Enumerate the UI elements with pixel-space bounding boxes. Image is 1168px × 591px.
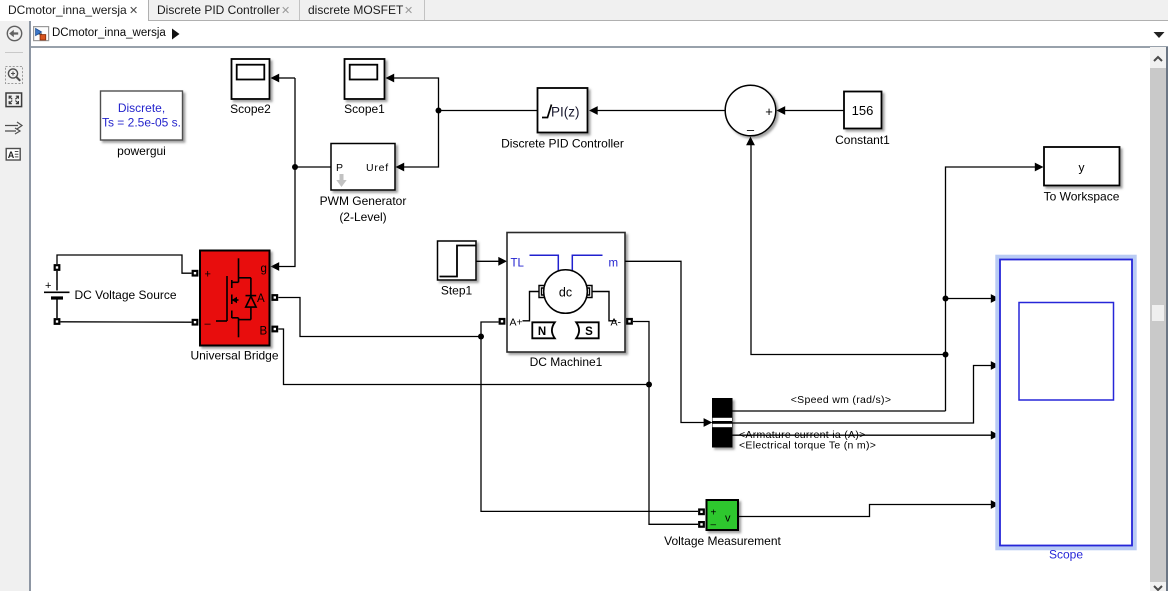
wire demux out3 (732, 434, 991, 436)
svg-text:S: S (585, 326, 593, 338)
rotor circle (544, 270, 588, 314)
svg-text:–: – (747, 122, 755, 137)
svg-text:+: + (711, 508, 717, 519)
svg-text:Uref: Uref (366, 162, 389, 174)
DC Voltage Source battery symbol (44, 271, 70, 318)
voltmeter - port (699, 522, 704, 527)
wire bridge B to junction (278, 329, 649, 385)
MOSFET Q1 icon (216, 258, 256, 337)
bridge + port (193, 271, 198, 276)
junction node speed to feedback (943, 352, 949, 358)
svg-text:–: – (711, 520, 717, 531)
svg-text:Ts = 2.5e-05 s.: Ts = 2.5e-05 s. (102, 116, 181, 130)
svg-text:A+: A+ (510, 317, 523, 329)
DC Voltage Source - port (55, 319, 60, 324)
svg-text:Discrete PID Controller: Discrete PID Controller (501, 137, 624, 151)
svg-text:156: 156 (852, 103, 874, 118)
sum block (725, 85, 776, 137)
svg-text:g: g (261, 263, 267, 275)
svg-text:y: y (1079, 161, 1085, 175)
Step1 block (438, 241, 477, 280)
svg-text:P: P (336, 162, 343, 174)
toolbar icons (0, 21, 28, 591)
Scope2 input arrowhead (271, 74, 280, 83)
wire PID output to junction (439, 110, 538, 112)
sum + input arrowhead (777, 106, 786, 115)
svg-text:Universal Bridge: Universal Bridge (190, 349, 278, 363)
wire sum output to PID input (598, 110, 726, 112)
wire speed branch to scope in1 (946, 298, 992, 300)
svg-text:Scope1: Scope1 (344, 102, 385, 116)
svg-text:–: – (205, 318, 212, 330)
junction node B (646, 382, 652, 388)
svg-text:DC Machine1: DC Machine1 (530, 355, 603, 369)
Discrete PID Controller block U1 (538, 88, 588, 133)
svg-text:Discrete,: Discrete, (118, 101, 165, 115)
scope block Scope1 (345, 59, 385, 99)
g input arrowhead (271, 262, 280, 271)
DC Machine1 block (507, 233, 625, 353)
model icon (33, 26, 50, 42)
fit to view icon (6, 93, 22, 107)
svg-text:PI(z): PI(z) (551, 105, 580, 120)
demux input arrowhead (704, 418, 713, 427)
svg-text:dc: dc (559, 286, 572, 300)
To Workspace input arrowhead (1035, 163, 1044, 172)
magnet S (576, 322, 599, 338)
m blue link (572, 255, 602, 271)
zoom icon (6, 67, 23, 84)
PWM Generator block (331, 144, 395, 191)
svg-text:+: + (45, 280, 51, 292)
svg-text:+: + (205, 269, 211, 281)
sum - input arrowhead (746, 137, 755, 146)
right armature lead (592, 292, 617, 321)
junction node A (478, 334, 484, 340)
svg-text:Scope2: Scope2 (230, 102, 271, 116)
wire speed trunk to To Workspace (946, 167, 1036, 411)
left brush (539, 286, 545, 298)
svg-text:N: N (538, 326, 546, 338)
svg-text:PWM Generator: PWM Generator (320, 194, 407, 208)
To Workspace block (1044, 147, 1120, 186)
scope in4 arrowhead (991, 500, 1000, 509)
svg-text:Scope: Scope (1049, 548, 1083, 562)
voltmeter + port (699, 510, 704, 515)
back button (7, 26, 21, 40)
wire Constant1 to sum (785, 110, 844, 112)
junction node speed to scope (943, 296, 949, 302)
wire bridge A to machine A+ and voltmeter (278, 298, 481, 337)
Voltage Measurement block (707, 500, 739, 531)
svg-text:Voltage Measurement: Voltage Measurement (664, 534, 781, 548)
svg-text:<Electrical torque Te (n m)>: <Electrical torque Te (n m)> (739, 440, 876, 452)
TL input arrowhead (498, 257, 507, 266)
svg-text:A: A (8, 150, 15, 160)
bridge - port (193, 320, 198, 325)
diode D1 (246, 296, 256, 307)
junction node at PID output (436, 108, 442, 114)
wire junction down to voltmeter - (649, 385, 698, 525)
wire junction down to gate g (279, 167, 295, 267)
svg-text:<Speed wm (rad/s)>: <Speed wm (rad/s)> (791, 394, 892, 406)
MOSFET body arrow (232, 297, 237, 303)
wire battery- to bridge- (61, 321, 192, 323)
wire Step1 to TL (476, 260, 499, 262)
Universal Bridge block (200, 251, 270, 346)
wire junction up to Scope2 (294, 78, 296, 167)
right brush (587, 286, 593, 298)
magnet N (532, 322, 555, 338)
TL blue link (530, 255, 559, 271)
svg-text:(2-Level): (2-Level) (339, 210, 386, 224)
scope block Scope2 (232, 59, 270, 99)
wire junction up to A- port (633, 322, 649, 385)
scope in3 arrowhead (991, 431, 1000, 440)
svg-text:Constant1: Constant1 (835, 133, 890, 147)
bridge B port (273, 327, 278, 332)
wire demux out1 speed trunk (732, 410, 946, 412)
junction node at P output (292, 164, 298, 170)
wire voltmeter output to scope in4 (738, 505, 991, 517)
feedback wire from speed trunk to sum (751, 145, 946, 355)
wire demux out2 (732, 366, 991, 424)
annotation icon (6, 149, 20, 161)
wire P output to junction (295, 166, 331, 168)
wire battery+ to bridge+ (57, 255, 192, 273)
svg-text:A-: A- (611, 317, 622, 329)
svg-text:+: + (765, 104, 773, 119)
wire junction down to voltmeter + (481, 337, 698, 512)
Scope block selected (998, 257, 1134, 548)
wire Scope1 to junction (394, 78, 439, 111)
powergui block (101, 91, 183, 140)
Scope1 input arrowhead (386, 74, 395, 83)
machine A- port (627, 319, 632, 324)
svg-text:To Workspace: To Workspace (1044, 190, 1120, 204)
svg-text:A: A (257, 293, 265, 305)
left armature lead (523, 292, 540, 321)
svg-text:DC Voltage Source: DC Voltage Source (75, 288, 177, 302)
svg-text:powergui: powergui (117, 144, 166, 158)
PID input arrowhead (589, 106, 598, 115)
DC Voltage Source + port (55, 265, 60, 270)
svg-text:B: B (260, 326, 268, 338)
wire m output to demux (625, 261, 704, 422)
wire into Scope2 (279, 77, 295, 79)
scope in2 arrowhead (991, 361, 1000, 370)
machine A+ port (500, 319, 505, 324)
svg-text:m: m (609, 258, 619, 270)
Uref input arrowhead (396, 163, 405, 172)
svg-text:Step1: Step1 (441, 284, 473, 298)
scope in1 arrowhead (991, 294, 1000, 303)
svg-text:v: v (725, 513, 731, 525)
Constant1 block (844, 92, 882, 129)
demux bus selector (713, 399, 733, 448)
bridge A port (273, 295, 278, 300)
wire junction to Uref (404, 111, 439, 168)
svg-text:TL: TL (511, 258, 525, 270)
signal arrows icon (5, 126, 18, 132)
wire junction to A+ port (481, 322, 499, 337)
